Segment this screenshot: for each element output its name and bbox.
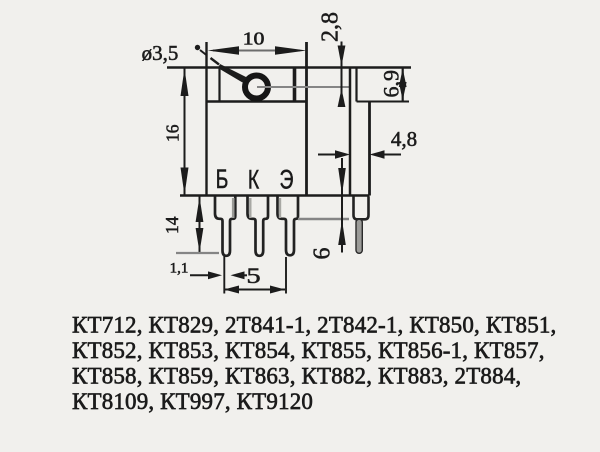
svg-text:КТ852, КТ853, КТ854, КТ855, КТ: КТ852, КТ853, КТ854, КТ855, КТ856-1, КТ8… <box>72 338 545 363</box>
svg-text:Б: Б <box>216 164 229 194</box>
dimension 6 (pin shoulder, side view) <box>310 158 346 260</box>
side view: pin shoulder <box>354 197 369 220</box>
side view: body right edge <box>368 102 371 196</box>
front view: left edge <box>205 42 207 196</box>
side view: tab bottom extension line <box>357 100 410 102</box>
dimension 14 (pin length) <box>162 196 219 253</box>
extension line pin1 <box>223 256 225 294</box>
pin 3 inner gray shading <box>279 198 281 218</box>
side view: pin (gray) <box>356 219 362 253</box>
pin 1 (Б) outline <box>215 197 235 256</box>
front view: package top edge (common with side view top) <box>167 66 411 68</box>
pin 1 inner gray shading <box>232 198 235 218</box>
pin labels Б К Э <box>216 164 294 194</box>
svg-text:5: 5 <box>246 263 260 288</box>
extension line pin3 <box>285 257 287 294</box>
svg-text:2,8: 2,8 <box>318 12 344 42</box>
svg-text:16: 16 <box>163 124 183 142</box>
svg-text:1,1: 1,1 <box>170 261 189 277</box>
side view: tab strip right line <box>355 68 357 102</box>
svg-text:14: 14 <box>162 216 182 234</box>
svg-text:К: К <box>248 164 260 194</box>
shoulder seating line (gray) to side view <box>298 218 349 220</box>
svg-text:4,8: 4,8 <box>391 127 417 151</box>
dimension 2,8 (hole center from top) <box>318 12 346 107</box>
dimension 6,9 (tab height, side view) <box>379 68 407 102</box>
body bottom baseline <box>180 194 370 197</box>
pin 2 inner gray shading <box>249 198 251 218</box>
svg-text:ø3,5: ø3,5 <box>142 41 179 65</box>
svg-text:Э: Э <box>280 164 294 194</box>
dimension 4,8 (body thickness) <box>318 127 417 159</box>
dimension ø3,5 (hole) with leader <box>142 41 247 83</box>
side view: left edge <box>349 68 352 196</box>
pin 2 (К) outline <box>248 197 269 256</box>
dimension 1,1 (pin thickness) <box>170 261 247 280</box>
transistor type list <box>72 312 556 414</box>
dimension 16 (body height) <box>163 68 189 196</box>
svg-text:КТ858, КТ859, КТ863, КТ882, КТ: КТ858, КТ859, КТ863, КТ882, КТ883, 2Т884… <box>72 363 521 388</box>
pin tip extension line (gray) <box>176 252 219 254</box>
pin 3 (Э) outline <box>278 197 299 256</box>
front view: tab bottom line <box>207 100 307 102</box>
hole center line (gray) <box>257 86 351 88</box>
front view: tab inner right line <box>293 68 297 102</box>
svg-text:10: 10 <box>243 29 265 48</box>
mounting hole <box>245 76 268 99</box>
front view: tab inner left line <box>218 68 220 102</box>
svg-text:6: 6 <box>310 248 336 260</box>
dimension 10 (tab width) <box>208 29 307 54</box>
svg-text:КТ8109, КТ997, КТ9120: КТ8109, КТ997, КТ9120 <box>72 389 313 414</box>
svg-text:КТ712, КТ829, 2Т841-1, 2Т842-1: КТ712, КТ829, 2Т841-1, 2Т842-1, КТ850, К… <box>72 312 556 337</box>
front view: right edge <box>305 42 308 196</box>
dimension 5 (pin pitch) <box>224 256 286 294</box>
